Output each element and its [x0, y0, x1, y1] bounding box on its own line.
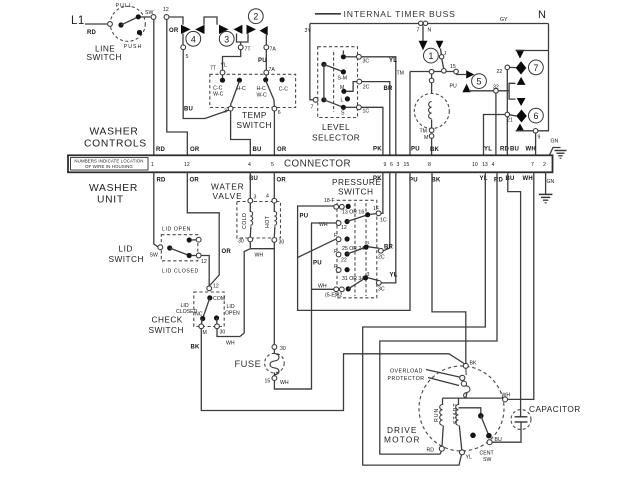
- svg-text:LID: LID: [227, 304, 235, 310]
- svg-text:1: 1: [151, 162, 154, 168]
- svg-text:N: N: [428, 28, 432, 34]
- svg-text:6: 6: [278, 110, 281, 116]
- svg-text:DRIVE: DRIVE: [387, 425, 417, 435]
- wire YL level selector 3C to connector: [361, 57, 397, 155]
- node 32: [493, 85, 499, 94]
- node 12 COM: [207, 286, 212, 291]
- wire RD from SW down to connector: [154, 20, 166, 156]
- svg-text:5: 5: [186, 54, 189, 60]
- svg-text:BK: BK: [191, 345, 201, 351]
- svg-text:W-C: W-C: [213, 92, 224, 98]
- svg-text:TEMP: TEMP: [242, 110, 267, 120]
- svg-text:3C: 3C: [378, 287, 385, 293]
- svg-text:1C: 1C: [380, 218, 387, 224]
- label water valve: [211, 182, 245, 202]
- wire WH to fuse 30: [273, 249, 275, 345]
- svg-text:YL: YL: [389, 58, 397, 64]
- svg-text:9: 9: [384, 162, 387, 168]
- svg-text:PULL: PULL: [116, 3, 133, 9]
- svg-text:8: 8: [428, 162, 431, 168]
- svg-text:3: 3: [254, 195, 257, 201]
- svg-text:30: 30: [279, 240, 285, 246]
- wire PK pressure 1C to connector: [381, 172, 383, 213]
- svg-text:(5-E)32: (5-E)32: [325, 293, 342, 299]
- overload protector: [388, 368, 470, 398]
- svg-text:SW: SW: [483, 457, 491, 463]
- wire BU connector to capacitor: [508, 172, 521, 416]
- timer cam contact 4: [181, 25, 205, 60]
- wire BR level selector 2C to connector: [362, 82, 393, 155]
- junction 7 N on buss: [417, 21, 432, 33]
- svg-text:2C: 2C: [363, 85, 370, 91]
- svg-text:SELECTOR: SELECTOR: [312, 133, 360, 143]
- wire BU connector to valve cold: [249, 172, 251, 198]
- svg-text:32: 32: [493, 85, 499, 91]
- svg-text:NUMBERS INDICATE LOCATION: NUMBERS INDICATE LOCATION: [74, 159, 143, 164]
- wire GN pin2 to ground: [539, 172, 553, 203]
- wire capacitor to BU terminal: [492, 427, 521, 442]
- svg-text:LID OPEN: LID OPEN: [162, 227, 191, 233]
- svg-text:22: 22: [497, 69, 503, 75]
- svg-text:12: 12: [341, 225, 347, 231]
- centrifugal switch: [459, 408, 502, 463]
- svg-text:7A: 7A: [270, 47, 277, 53]
- wire OR connector to valve hot: [273, 172, 275, 198]
- svg-text:WH: WH: [318, 284, 327, 290]
- wire 7T YL to temp switch: [210, 50, 241, 72]
- svg-text:BK: BK: [470, 361, 477, 367]
- svg-text:7A: 7A: [269, 67, 276, 73]
- wire YL connector to drive motor: [363, 172, 486, 465]
- svg-text:SWITCH: SWITCH: [109, 254, 144, 264]
- svg-text:TM: TM: [397, 71, 405, 77]
- svg-text:S: S: [341, 111, 345, 117]
- svg-text:PU: PU: [411, 147, 420, 153]
- terminal 12: [163, 7, 169, 19]
- svg-text:OR: OR: [169, 28, 179, 34]
- wire WH connector to drive motor: [507, 172, 533, 399]
- svg-text:2: 2: [253, 12, 258, 22]
- svg-text:RD: RD: [494, 178, 504, 184]
- svg-text:4: 4: [266, 194, 269, 200]
- svg-text:SWITCH: SWITCH: [237, 120, 272, 130]
- svg-text:10: 10: [472, 162, 478, 168]
- wire check 30 to WH junction: [217, 329, 240, 347]
- svg-text:COLD: COLD: [242, 213, 248, 229]
- svg-text:9: 9: [538, 135, 541, 141]
- connector J1 strip: [68, 155, 553, 172]
- wire BK check M down and right to motor: [191, 329, 465, 411]
- fuse F1: [235, 345, 289, 386]
- svg-text:J: J: [444, 51, 447, 57]
- svg-text:PUSH: PUSH: [124, 44, 142, 50]
- svg-text:4: 4: [492, 162, 495, 168]
- node L1: [71, 15, 85, 27]
- wire WH 9 to connector: [526, 133, 536, 155]
- wire 7A PU to temp switch: [258, 50, 275, 73]
- svg-text:L: L: [341, 98, 344, 104]
- label washer unit: [89, 183, 138, 206]
- timer cam contact 6: [505, 108, 543, 131]
- svg-text:30: 30: [220, 330, 226, 336]
- svg-text:GN: GN: [547, 179, 555, 185]
- svg-text:WH: WH: [502, 393, 511, 399]
- wire OR temp switch 6 to connector: [274, 111, 286, 155]
- svg-text:WH: WH: [226, 341, 235, 347]
- drive motor windings: [427, 393, 511, 461]
- svg-text:UNIT: UNIT: [97, 195, 124, 206]
- svg-text:GY: GY: [500, 17, 508, 23]
- svg-text:M: M: [203, 330, 207, 336]
- svg-text:N: N: [538, 9, 547, 21]
- svg-text:1F: 1F: [373, 206, 379, 212]
- svg-text:PU: PU: [300, 214, 309, 220]
- svg-text:LID CLOSED: LID CLOSED: [162, 269, 199, 275]
- svg-text:PU: PU: [313, 261, 322, 267]
- svg-text:F: F: [334, 249, 337, 255]
- wire OR from 12 down jog to connector: [167, 20, 200, 156]
- svg-text:YL: YL: [466, 455, 472, 461]
- svg-text:13 OR 16: 13 OR 16: [342, 210, 364, 216]
- motor M1 timer motor: [414, 74, 449, 141]
- svg-text:3Y: 3Y: [305, 28, 312, 34]
- wire BK connector to drive motor: [432, 172, 466, 363]
- svg-text:1: 1: [428, 51, 433, 61]
- switch S3 level selector: [311, 47, 370, 143]
- svg-text:OR: OR: [277, 147, 287, 153]
- wire lid switch 12 to check switch COM: [201, 256, 219, 290]
- timer cam contact 7: [497, 50, 544, 75]
- svg-text:3: 3: [224, 109, 227, 115]
- label washer controls: [84, 127, 147, 150]
- svg-text:YL: YL: [221, 63, 227, 69]
- wire labels below connector: [157, 176, 555, 185]
- svg-text:SWITCH: SWITCH: [149, 325, 184, 335]
- wire PK level selector 1C to connector: [361, 107, 383, 155]
- wire PU connector to pressure switch: [298, 172, 410, 310]
- svg-text:RD: RD: [156, 147, 166, 153]
- svg-text:CAPACITOR: CAPACITOR: [529, 404, 581, 414]
- switch S1 line switch: [87, 3, 151, 62]
- svg-text:BU: BU: [253, 147, 262, 153]
- svg-text:YL: YL: [390, 273, 398, 279]
- svg-text:21: 21: [507, 118, 513, 124]
- svg-text:H-C: H-C: [257, 86, 266, 92]
- svg-text:PU: PU: [450, 84, 457, 90]
- svg-text:YL: YL: [484, 147, 492, 153]
- svg-text:OR: OR: [190, 147, 200, 153]
- svg-text:RUN: RUN: [434, 408, 440, 422]
- svg-text:BU: BU: [506, 176, 515, 182]
- motor M2 drive motor: [384, 361, 504, 452]
- wire timer bus top: [169, 17, 217, 25]
- switch S4 pressure switch: [318, 198, 387, 299]
- svg-text:4: 4: [191, 34, 196, 44]
- svg-text:OR: OR: [190, 178, 200, 184]
- svg-text:7: 7: [417, 28, 420, 34]
- svg-text:3: 3: [367, 272, 370, 278]
- svg-text:BK: BK: [432, 178, 442, 184]
- svg-text:WH: WH: [523, 176, 533, 182]
- svg-text:3: 3: [224, 34, 229, 44]
- svg-text:C-C: C-C: [279, 87, 288, 93]
- svg-text:3C: 3C: [363, 59, 370, 65]
- timer cam contact 1: [419, 26, 447, 69]
- node N: [538, 9, 547, 21]
- svg-text:12: 12: [184, 162, 190, 168]
- svg-text:WH: WH: [255, 253, 264, 259]
- svg-text:TM: TM: [420, 129, 428, 135]
- wire OR connector jog to lid switch 12: [187, 172, 231, 286]
- svg-text:WH: WH: [280, 380, 289, 386]
- svg-text:15: 15: [265, 379, 271, 385]
- svg-text:30: 30: [238, 239, 244, 245]
- svg-text:OPEN: OPEN: [225, 311, 240, 317]
- wire BU 22 to connector: [507, 70, 519, 155]
- wire 32 to cam 5 changeover: [498, 77, 525, 106]
- svg-text:CONTROLS: CONTROLS: [84, 139, 147, 150]
- svg-text:SW: SW: [145, 10, 153, 16]
- wire BU temp switch 3 to connector: [231, 111, 262, 155]
- label internal timer buss: [315, 9, 456, 19]
- svg-text:WASHER: WASHER: [89, 183, 138, 194]
- svg-text:15: 15: [450, 64, 456, 70]
- timer cam contact 5: [450, 70, 494, 92]
- svg-text:OR: OR: [222, 249, 232, 255]
- svg-text:OVERLOAD: OVERLOAD: [390, 369, 423, 375]
- wire PU branch to pole2: [298, 239, 337, 267]
- wire L1 to line switch: [85, 24, 107, 36]
- switch S2 temp switch: [210, 70, 296, 130]
- wire YL pressure 3C to connector: [381, 172, 398, 283]
- svg-text:4: 4: [248, 162, 251, 168]
- wire fuse 15 down to WH rail: [274, 381, 311, 390]
- svg-text:3: 3: [397, 162, 400, 168]
- svg-text:VALVE: VALVE: [213, 191, 243, 201]
- svg-text:WATER: WATER: [211, 182, 245, 192]
- svg-text:7T: 7T: [210, 66, 217, 72]
- svg-text:12: 12: [213, 284, 219, 290]
- svg-text:LEVEL: LEVEL: [322, 122, 350, 132]
- svg-text:CENT: CENT: [480, 451, 495, 457]
- svg-text:PRESSURE: PRESSURE: [332, 177, 381, 187]
- wire 5 BU to temp switch common: [183, 50, 230, 119]
- svg-text:S-M: S-M: [338, 76, 348, 82]
- svg-text:PU: PU: [258, 58, 267, 64]
- svg-text:WASHER: WASHER: [90, 127, 139, 138]
- svg-text:6: 6: [390, 162, 393, 168]
- wire RD connector to drive motor: [380, 172, 497, 454]
- svg-text:INTERNAL TIMER BUSS: INTERNAL TIMER BUSS: [344, 9, 456, 19]
- svg-text:6: 6: [533, 111, 538, 121]
- svg-text:CHECK: CHECK: [152, 315, 183, 325]
- wire 3Y buss to level selector: [305, 24, 314, 100]
- label pressure switch: [332, 177, 381, 197]
- wire YL 21 to connector: [484, 115, 506, 156]
- svg-text:SW: SW: [150, 253, 158, 259]
- svg-text:RD: RD: [427, 448, 435, 454]
- svg-text:BR: BR: [384, 245, 394, 251]
- svg-text:PK: PK: [373, 147, 382, 153]
- svg-text:5: 5: [477, 77, 482, 87]
- svg-text:1C: 1C: [363, 109, 370, 115]
- svg-text:OF WIRE IN HOUSING: OF WIRE IN HOUSING: [85, 164, 133, 169]
- wire internal timer buss GY: [310, 17, 549, 24]
- svg-text:7: 7: [531, 162, 534, 168]
- svg-text:WH: WH: [526, 147, 536, 153]
- svg-text:BK: BK: [430, 147, 440, 153]
- svg-text:RD: RD: [87, 30, 97, 36]
- wire RD 32 to connector: [496, 93, 510, 155]
- svg-text:30: 30: [280, 346, 286, 352]
- node 9: [533, 129, 540, 141]
- svg-text:W-C: W-C: [257, 93, 268, 99]
- capacitor C1: [511, 404, 581, 430]
- svg-text:M: M: [340, 85, 344, 91]
- svg-text:RD: RD: [157, 178, 167, 184]
- svg-text:12: 12: [201, 259, 207, 265]
- svg-text:5: 5: [271, 162, 274, 168]
- svg-text:FUSE: FUSE: [235, 359, 262, 369]
- svg-text:BU: BU: [510, 147, 519, 153]
- svg-text:SWITCH: SWITCH: [338, 187, 373, 197]
- svg-text:GN: GN: [551, 139, 559, 145]
- wire PU TM row to connector: [410, 72, 420, 156]
- svg-text:LID: LID: [119, 244, 133, 254]
- wire RD connector to lid switch: [154, 172, 159, 247]
- ground GN top right: [550, 139, 567, 159]
- svg-text:7: 7: [533, 63, 538, 73]
- wire BR pressure 2C to connector: [383, 172, 393, 251]
- svg-text:MOTOR: MOTOR: [384, 435, 421, 445]
- svg-text:PROTECTOR: PROTECTOR: [388, 376, 425, 382]
- wire N rail to cams 7 and 6: [516, 24, 549, 131]
- timer cam contact 3: [219, 25, 251, 53]
- svg-text:CONNECTOR: CONNECTOR: [284, 159, 351, 170]
- switch S5 lid switch: [109, 227, 207, 275]
- wire BK timer motor to connector: [430, 138, 440, 155]
- svg-text:BU: BU: [184, 107, 193, 113]
- timer cam contact 2: [247, 9, 277, 53]
- svg-text:SWITCH: SWITCH: [87, 52, 122, 62]
- svg-text:OR: OR: [277, 178, 287, 184]
- svg-text:12: 12: [163, 7, 169, 13]
- svg-text:L1: L1: [71, 15, 85, 27]
- wire WH pressure switch poles to fuse: [274, 223, 336, 389]
- wire WH to check switch 30: [240, 249, 250, 337]
- svg-text:M: M: [424, 135, 428, 141]
- svg-text:COM: COM: [213, 296, 225, 302]
- svg-text:7: 7: [311, 105, 314, 111]
- svg-text:YL: YL: [480, 176, 488, 182]
- svg-text:BR: BR: [384, 86, 394, 92]
- timer motor TM row: [397, 64, 459, 77]
- svg-text:RD: RD: [500, 147, 510, 153]
- terminal SW: [145, 10, 156, 19]
- svg-text:13: 13: [482, 162, 488, 168]
- ground pin 2: [539, 193, 553, 195]
- svg-text:18-F: 18-F: [324, 198, 335, 204]
- svg-text:15: 15: [404, 162, 410, 168]
- solenoid water valve: [237, 194, 284, 246]
- svg-text:2C: 2C: [378, 255, 385, 261]
- svg-text:7T: 7T: [245, 47, 252, 53]
- svg-text:2: 2: [543, 162, 546, 168]
- svg-text:HOT: HOT: [265, 215, 271, 228]
- wire WH valve outlets join: [250, 242, 274, 259]
- svg-text:22: 22: [341, 258, 347, 264]
- switch S6 check switch: [149, 292, 240, 336]
